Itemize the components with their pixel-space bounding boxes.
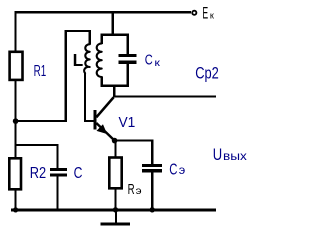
svg-text:E: E <box>202 4 208 22</box>
svg-text:э: э <box>179 165 186 177</box>
svg-text:C: C <box>145 52 153 69</box>
svg-text:Cp2: Cp2 <box>195 63 219 82</box>
svg-text:V1: V1 <box>119 115 136 131</box>
svg-text:C: C <box>74 165 83 182</box>
svg-text:U: U <box>213 146 222 164</box>
svg-text:R: R <box>128 182 135 198</box>
svg-text:к: к <box>154 57 160 69</box>
svg-text:R1: R1 <box>34 63 47 80</box>
svg-text:C: C <box>169 161 177 178</box>
svg-text:R2: R2 <box>30 165 46 182</box>
svg-text:э: э <box>136 186 142 197</box>
svg-text:L: L <box>73 50 84 70</box>
svg-text:вых: вых <box>223 149 247 163</box>
